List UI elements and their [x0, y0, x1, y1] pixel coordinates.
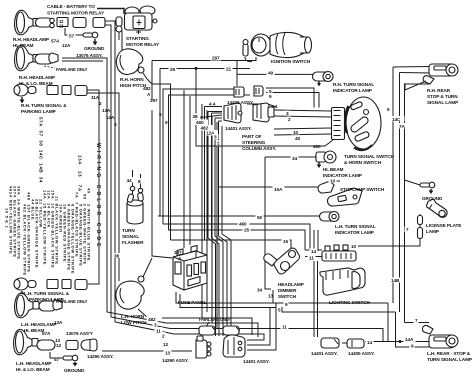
svg-text:10 5 E 1: 10 5 E 1 [5, 208, 10, 229]
wire parking lamp feeds [87, 90, 99, 284]
wire 14 lighting connector [305, 249, 322, 251]
svg-text:FAIRLANE ONLY: FAIRLANE ONLY [199, 317, 231, 322]
headlamp LH hi lo beam [14, 329, 97, 354]
wire 482 bottom [162, 318, 252, 335]
svg-text:HI. BEAM: HI. BEAM [323, 167, 343, 172]
connector RH hi lo [35, 53, 58, 64]
svg-text:11: 11 [309, 256, 314, 261]
svg-text:L.H. REAR - STOP &: L.H. REAR - STOP & [427, 351, 471, 356]
label 3 2 10 40 [285, 111, 290, 116]
horn RH high pitch [116, 49, 147, 79]
wire rear feed v3 [405, 83, 431, 85]
svg-text:10: 10 [293, 130, 299, 135]
svg-text:34: 34 [292, 156, 298, 161]
svg-text:13: 13 [268, 294, 274, 299]
label 25 [169, 67, 177, 72]
svg-text:57: 57 [69, 34, 75, 39]
svg-text:TURN SIGNAL LAMP: TURN SIGNAL LAMP [427, 357, 472, 362]
label 38 [113, 253, 121, 258]
svg-text:13: 13 [165, 351, 171, 356]
svg-text:LIGHTING SWITCH: LIGHTING SWITCH [329, 300, 370, 305]
svg-text:FAIRLANE ONLY: FAIRLANE ONLY [56, 67, 88, 72]
svg-text:HI. & LO. BEAM: HI. & LO. BEAM [16, 367, 50, 372]
svg-text:13A: 13A [102, 108, 111, 113]
wire 9 to switch pins [266, 93, 319, 108]
wire 9 from 14405 left [169, 95, 251, 230]
wire fuse bundle v2 [212, 112, 223, 114]
svg-text:INDICATOR LAMP: INDICATOR LAMP [323, 173, 362, 178]
wire hi-lo lamp feeds [62, 58, 166, 323]
svg-text:40: 40 [295, 136, 301, 141]
svg-text:49: 49 [268, 71, 274, 76]
battery cable lug stack [116, 17, 122, 40]
wire horn to 482 [138, 309, 148, 318]
fairlane connector a [199, 326, 216, 335]
svg-text:14: 14 [311, 249, 317, 254]
label 10A [273, 184, 285, 192]
svg-text:10: 10 [351, 244, 357, 249]
svg-text:PARKING LAMP: PARKING LAMP [21, 109, 56, 114]
lamp LH turn signal parking [14, 278, 87, 296]
svg-text:297: 297 [174, 250, 182, 255]
svg-text:FAIRLANE ONLY: FAIRLANE ONLY [56, 299, 88, 304]
svg-text:GROUND: GROUND [64, 368, 85, 373]
svg-text:460: 460 [313, 144, 321, 149]
wire center v b [183, 90, 185, 248]
wire flasher feed 44 [132, 170, 134, 186]
label 5 9 column [268, 89, 273, 94]
wire 13 bottom [173, 350, 192, 352]
svg-text:482: 482 [143, 86, 151, 91]
svg-text:R.H. HEADLAMP: R.H. HEADLAMP [19, 75, 55, 80]
wire long 9 bottom [176, 292, 388, 303]
connector 14405 right [347, 339, 364, 348]
svg-text:297: 297 [212, 56, 220, 61]
svg-text:297: 297 [150, 98, 158, 103]
fairlane only leader [206, 322, 209, 327]
svg-text:460: 460 [239, 222, 247, 227]
fuse panel [173, 246, 207, 291]
wire 10 stoplamp stub [331, 180, 340, 182]
wire 25 21 horizontal to ignition switch [160, 68, 250, 70]
svg-text:13A 13 7A: 13A 13 7A [78, 155, 83, 192]
connector 14401 bottom big [223, 335, 245, 357]
wire 38 stub dot [201, 115, 222, 118]
wire long 5 to lamp [396, 312, 430, 347]
turn signal switch circle [332, 97, 382, 150]
svg-text:13076 ASSY.: 13076 ASSY. [76, 53, 103, 58]
svg-text:7A: 7A [399, 124, 406, 129]
svg-text:INDICATOR LAMP: INDICATOR LAMP [333, 88, 372, 93]
svg-text:STOPLAMP SWITCH: STOPLAMP SWITCH [340, 187, 385, 192]
svg-text:STARTING: STARTING [126, 36, 149, 41]
svg-text:4 4: 4 4 [209, 102, 216, 107]
label 14B [390, 278, 403, 283]
wire 34 hi beam lamp [265, 156, 316, 158]
wire 5 from 14405 left [163, 89, 234, 224]
connector 14401 column left [224, 103, 242, 123]
headlamp LH hi beam [15, 293, 62, 317]
wire 10 to license chain [358, 214, 420, 246]
svg-text:14405 ASSY.: 14405 ASSY. [227, 100, 254, 105]
svg-text:R.H. HEADLAMP: R.H. HEADLAMP [13, 37, 49, 42]
svg-text:CABLE - BATTERY TO: CABLE - BATTERY TO [47, 4, 95, 9]
svg-text:GROUND: GROUND [84, 46, 105, 51]
turn signal flasher [127, 193, 144, 224]
svg-text:SWITCH: SWITCH [278, 294, 297, 299]
wire center v c 38 [189, 96, 191, 245]
svg-text:HI. & LO. BEAM: HI. & LO. BEAM [19, 81, 53, 86]
wire 34 vertical to dimmer [265, 157, 271, 289]
starting motor relay [125, 6, 158, 34]
svg-text:HI. BEAM: HI. BEAM [13, 43, 33, 48]
wire 14 connectors link [342, 342, 347, 344]
svg-text:WIRING COLOR CODE: WIRING COLOR CODE [95, 143, 101, 250]
wire headlamp hi-beam feed to left bundle [105, 21, 174, 334]
wire LH chain 13 [102, 350, 173, 352]
svg-text:L.H. HORN: L.H. HORN [121, 314, 145, 319]
svg-text:25: 25 [244, 228, 250, 233]
svg-text:482: 482 [148, 317, 156, 322]
svg-text:COLUMN ASSY.: COLUMN ASSY. [242, 146, 276, 151]
svg-text:12A: 12A [62, 43, 71, 48]
svg-text:STARTING MOTOR RELAY: STARTING MOTOR RELAY [47, 11, 105, 16]
wire 2 column to switch [274, 116, 332, 117]
svg-text:L.H. HEADLAMP: L.H. HEADLAMP [16, 361, 51, 366]
connector chain RH hi beam [36, 18, 106, 28]
label 460 25 15 mid [238, 221, 250, 227]
wire 11 bottom long [170, 329, 383, 342]
svg-text:DIMMER: DIMMER [278, 288, 297, 293]
horn LH low pitch [116, 258, 152, 309]
wire curve into connector [247, 308, 270, 346]
svg-text:57: 57 [54, 357, 60, 362]
lamp RH turn indicator [313, 72, 334, 87]
wire center v 460 [196, 69, 333, 147]
svg-text:482 BLACK-YELLOW STRIPE: 482 BLACK-YELLOW STRIPE [23, 204, 28, 276]
svg-text:57A: 57A [42, 331, 51, 336]
svg-text:14A: 14A [405, 337, 414, 342]
wire lighting sw verticals [313, 230, 315, 251]
svg-text:38: 38 [193, 114, 199, 119]
ground lug 57 bottom [50, 352, 78, 367]
label 7 [405, 227, 410, 233]
wire center v 2 [216, 122, 218, 329]
wire 40 column to switch [274, 134, 332, 135]
svg-text:14401 ASSY.: 14401 ASSY. [243, 359, 270, 364]
wire center v 12A [206, 110, 208, 312]
label 34 [291, 155, 299, 161]
lamp RH rear stop turn [405, 64, 458, 90]
svg-text:R.H. TURN SIGNAL &: R.H. TURN SIGNAL & [21, 103, 67, 108]
wire 25 mid [168, 230, 305, 250]
svg-text:15: 15 [283, 239, 289, 244]
wire battery cable to relay [97, 9, 124, 15]
svg-text:SIGNAL: SIGNAL [122, 234, 139, 239]
svg-text:& HORN SWITCH: & HORN SWITCH [344, 160, 382, 165]
connector 14405 b [254, 86, 263, 96]
wire center v 3 [211, 116, 213, 323]
svg-text:34: 34 [257, 288, 263, 293]
stoplamp switch [318, 181, 362, 206]
svg-text:14: 14 [367, 340, 373, 345]
svg-text:460: 460 [196, 120, 204, 125]
label 57 [68, 33, 76, 38]
svg-text:SIGNAL LAMP: SIGNAL LAMP [427, 100, 458, 105]
svg-text:14401 ASSY.: 14401 ASSY. [311, 351, 338, 356]
ground lug right [420, 182, 435, 194]
svg-text:57A: 57A [51, 39, 60, 44]
wire 25 branch down [159, 69, 161, 217]
wire 297 drop to 14405 [236, 61, 238, 87]
svg-text:10: 10 [330, 179, 336, 184]
svg-text:25: 25 [170, 67, 176, 72]
svg-text:11A: 11A [91, 95, 100, 100]
wire 482 from horn [147, 79, 171, 240]
label 9 5 11 bottom [284, 300, 289, 307]
connector column right [253, 103, 274, 122]
svg-text:50: 50 [257, 215, 263, 220]
wire rear feed v1 [392, 67, 394, 303]
wire fuse bundle v5 [222, 126, 231, 336]
label 50 [256, 213, 264, 219]
wire 3 column to switch [274, 110, 332, 111]
svg-text:MOTOR RELAY: MOTOR RELAY [126, 42, 160, 47]
lighting switch connector [322, 245, 356, 261]
wire 460 mid [163, 224, 310, 250]
svg-text:LICENSE PLATE: LICENSE PLATE [426, 223, 461, 228]
label 14 11 lighting [310, 249, 318, 254]
svg-text:R.H. TURN SIGNAL: R.H. TURN SIGNAL [333, 82, 374, 87]
svg-text:L.H. TURN SIGNAL &: L.H. TURN SIGNAL & [24, 291, 70, 296]
wire 50 to LH indicator [158, 215, 324, 217]
headlamp dimmer switch [264, 248, 300, 303]
wire 49 to indicator lamp [237, 73, 317, 75]
svg-text:FLASHER: FLASHER [122, 240, 144, 245]
svg-text:21: 21 [226, 67, 232, 72]
wire 3 bottom [166, 323, 258, 337]
label bottom left wires [147, 316, 159, 322]
wire 297 horizontal top to ignition [152, 57, 256, 61]
wire key tail [245, 57, 252, 62]
wire fuse bundle v1 [208, 111, 222, 113]
ground lug 57 top [65, 28, 98, 46]
wire 5 to switch pins [266, 88, 314, 108]
lamp LH rear stop turn [422, 325, 458, 348]
svg-text:L.H. HEADLAMP: L.H. HEADLAMP [21, 322, 56, 327]
svg-text:11: 11 [156, 329, 161, 334]
wire 7 to LH rear lamp top [405, 322, 430, 324]
wire 15 mid [171, 240, 292, 249]
svg-text:4 4: 4 4 [271, 104, 278, 109]
svg-text:STEERING: STEERING [242, 140, 266, 145]
svg-text:11: 11 [282, 325, 287, 330]
svg-text:14401 ASSY.: 14401 ASSY. [225, 126, 252, 131]
dashed leader fairlane only [44, 66, 55, 68]
wire long mid bottom [180, 294, 396, 312]
wire lighting sw drops [313, 261, 315, 337]
dashed leader fairlane only LH [50, 299, 60, 300]
label 7 rear [414, 318, 419, 324]
label 21 [225, 66, 233, 71]
node junction dot 460 [195, 67, 198, 70]
svg-text:14290 ASSY.: 14290 ASSY. [87, 354, 114, 359]
svg-text:R.H. REAR: R.H. REAR [427, 88, 451, 93]
wire 11 lighting connector [305, 256, 322, 258]
fairlane connector b [223, 326, 240, 335]
wire curve into connector b [247, 303, 276, 350]
label 10 stoplamp [329, 178, 337, 183]
svg-text:IGNITION SWITCH: IGNITION SWITCH [271, 59, 311, 64]
lighting switch body [320, 268, 365, 295]
lamp RH turn signal parking [14, 84, 87, 104]
WIRES-LAYER [62, 9, 432, 352]
label 14 14A 9 [366, 339, 374, 345]
wire headlamp feed 2 [105, 25, 170, 329]
headlamp RH hi lo beam [15, 45, 39, 70]
svg-text:INDICATOR LAMP: INDICATOR LAMP [335, 230, 374, 235]
connector 14405 a [234, 87, 244, 97]
svg-text:38: 38 [114, 254, 120, 259]
svg-text:GROUND: GROUND [422, 196, 443, 201]
svg-text:TURN: TURN [122, 228, 135, 233]
wire rear lamp feed top [393, 66, 429, 69]
lamp hi beam indicator [316, 151, 336, 168]
wire fuse bundle v3 [215, 117, 222, 119]
wire rear feed v2 [400, 72, 433, 75]
svg-text:10A: 10A [274, 187, 283, 192]
svg-text:TURN SIGNAL SWITCH: TURN SIGNAL SWITCH [344, 154, 395, 159]
connector 14290 bottom [196, 336, 211, 358]
svg-text:44: 44 [127, 178, 133, 183]
label 49 [267, 70, 275, 75]
wire relay output down [121, 31, 123, 58]
svg-text:HEADLAMP: HEADLAMP [278, 282, 304, 287]
svg-text:LOW PITCH: LOW PITCH [121, 320, 147, 325]
wire center v 482 [201, 104, 203, 318]
svg-text:R.H. HORN: R.H. HORN [120, 77, 144, 82]
svg-text:FUSE PANEL: FUSE PANEL [178, 300, 207, 305]
svg-text:14B: 14B [391, 278, 400, 283]
svg-text:LAMP: LAMP [426, 229, 439, 234]
svg-text:13A: 13A [54, 320, 63, 325]
headlamp RH hi beam [15, 10, 39, 34]
label 297 top [210, 56, 221, 61]
connector 14401 right [321, 338, 339, 348]
svg-text:13076 ASS'Y: 13076 ASS'Y [66, 331, 94, 336]
label 10 lighting [350, 242, 358, 249]
wire ground tee right [405, 180, 421, 185]
wire 10 column to switch [274, 128, 332, 129]
svg-text:L.H. TURN SIGNAL: L.H. TURN SIGNAL [335, 224, 376, 229]
lamp LH turn indicator [320, 212, 340, 222]
ignition switch [243, 32, 312, 57]
node junction 14A [399, 340, 402, 343]
svg-text:57A 57 38 14C 14B 34: 57A 57 38 14C 14B 34 [39, 117, 44, 183]
svg-text:12: 12 [56, 343, 62, 348]
svg-text:14290 ASSY.: 14290 ASSY. [162, 358, 189, 363]
wire 297A vertical [151, 61, 153, 101]
wire 10A to stoplamp switch [219, 186, 323, 188]
color code table rotated [5, 186, 92, 276]
wire 2 bottom [174, 334, 264, 340]
wire fuse bundle v4 [219, 120, 223, 122]
svg-text:12: 12 [163, 342, 169, 347]
wire 297A down to fuse panel [152, 110, 172, 258]
svg-text:STOP & TURN: STOP & TURN [427, 94, 458, 99]
svg-text:PART OF: PART OF [242, 134, 262, 139]
wire 14A to lamp [365, 341, 430, 343]
wire 44 horizontal to column [205, 106, 223, 108]
svg-text:14405 ASSY.: 14405 ASSY. [348, 351, 375, 356]
license plate lamp [418, 199, 448, 238]
wire flasher feed 8 [140, 174, 142, 188]
svg-text:14C: 14C [392, 117, 401, 122]
svg-text:12A: 12A [106, 115, 115, 120]
